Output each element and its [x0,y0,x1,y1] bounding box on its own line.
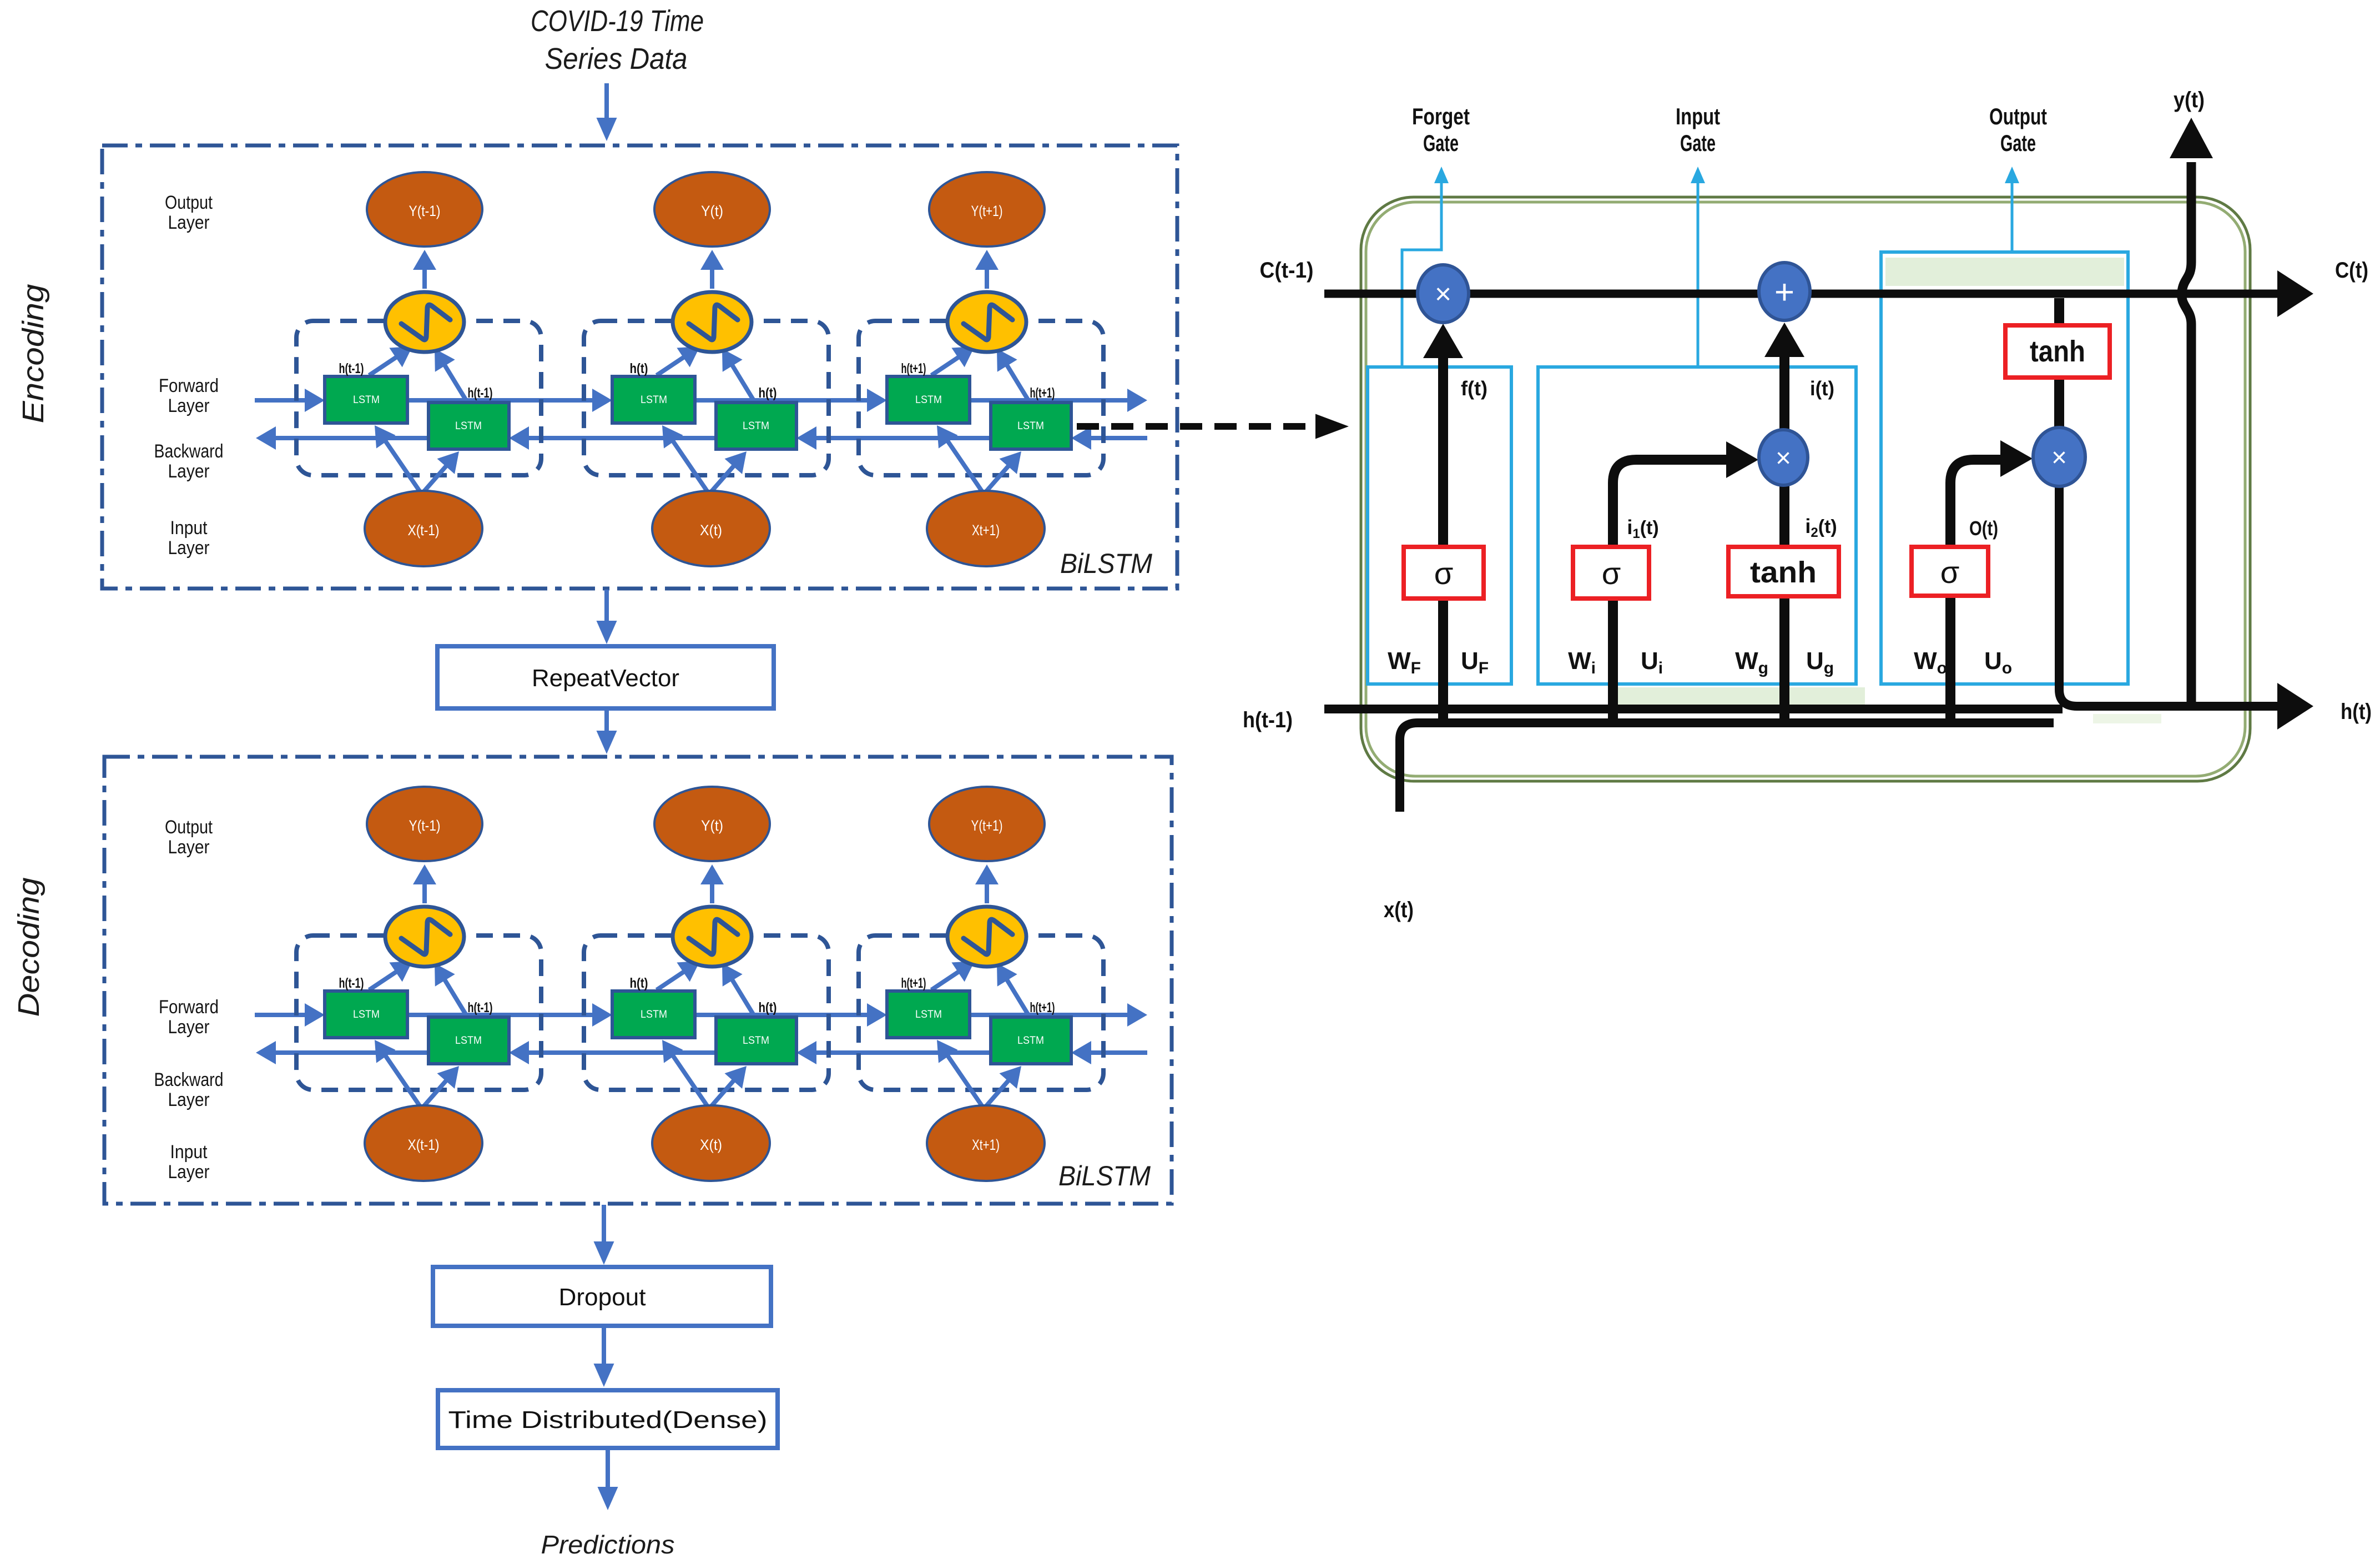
svg-text:tanh: tanh [2030,335,2085,368]
svg-text:Layer: Layer [168,395,210,416]
input oval X(t) [652,1105,770,1181]
activation circle (t+1) [947,907,1026,967]
svg-text:C(t-1): C(t-1) [1260,258,1314,283]
svg-text:h(t): h(t) [759,385,777,401]
sigma box input [1573,547,1649,599]
svg-text:LSTM: LSTM [641,394,667,406]
output oval Y(t+1) [929,172,1045,247]
svg-text:Y(t-1): Y(t-1) [409,817,441,834]
svg-text:Time Distributed(Dense): Time Distributed(Dense) [448,1406,768,1434]
svg-text:h(t-1): h(t-1) [339,361,364,376]
LSTM cell outer rounded box [1361,197,2250,781]
svg-text:Gate: Gate [1423,130,1459,156]
svg-text:X(t): X(t) [700,522,722,539]
backward LSTM box (t) [716,1017,796,1064]
svg-text:Xt+1): Xt+1) [972,1136,1000,1153]
svg-text:h(t+1): h(t+1) [901,361,926,376]
svg-text:×: × [1776,444,1791,473]
BiLSTM block border [104,757,1172,1204]
activation circle (t) [673,292,752,352]
dashed cell box (t+1) [859,321,1103,475]
svg-text:f(t): f(t) [1461,377,1487,400]
wire: backward LSTM to activation (t) [730,976,754,1016]
dashed cell box (t) [584,936,829,1090]
wire: decoder to Dropout [602,1205,606,1248]
input oval X(t-1) [365,491,482,566]
svg-text:Gate: Gate [2000,130,2036,156]
wire: X to backward LSTM (t+1) [986,462,1011,492]
RepeatVector box [437,646,774,708]
Time Distributed box [438,1390,778,1448]
svg-text:Layer: Layer [168,837,210,858]
svg-text:Y(t): Y(t) [701,203,723,219]
wire: backward line cell3 to cell2 [811,436,991,440]
wire: forward LSTM to activation (t+1) [931,969,962,990]
svg-text:LSTM: LSTM [1017,420,1044,432]
wire: input gate cyan arrow [1697,177,1700,367]
wire: input riser to add [1779,355,1789,727]
tanh box input [1728,547,1839,596]
svg-text:Dropout: Dropout [559,1284,646,1311]
input gate box [1538,367,1856,684]
svg-text:x(t): x(t) [1384,898,1414,922]
wire: forward LSTM to activation (t-1) [369,969,400,990]
wire: cell state C line [1324,290,2279,298]
wire: forward LSTM to activation (t) [657,969,688,990]
svg-text:Input: Input [170,1141,208,1163]
dashed cell box (t) [584,321,829,475]
svg-text:RepeatVector: RepeatVector [532,665,679,692]
multiply circle forget [1418,265,1469,323]
wire: output gate cyan arrow [2011,177,2014,252]
svg-text:+: + [1774,273,1794,311]
svg-text:LSTM: LSTM [353,1009,380,1020]
input oval Xt+1) [927,1105,1045,1181]
svg-text:h(t-1): h(t-1) [1243,708,1293,732]
wire: backward LSTM to activation (t-1) [442,976,467,1016]
activation circle (t+1) [947,292,1026,352]
svg-text:σ: σ [1940,555,1960,590]
wire: backward line exit left [271,436,428,440]
svg-text:X(t-1): X(t-1) [408,1136,440,1153]
wire: backward line cell3 to cell2 [811,1050,991,1055]
svg-text:h(t+1): h(t+1) [1030,385,1055,401]
svg-text:Layer: Layer [168,1017,210,1038]
wire: forget gate cyan arrow [1402,177,1441,367]
svg-text:Layer: Layer [168,1161,210,1183]
wire: tanh product to h out [2059,484,2279,706]
highlight strip output gate [1885,258,2124,286]
wire: X to forward LSTM (t+1) [945,1052,982,1107]
svg-text:h(t-1): h(t-1) [339,975,364,991]
wire: C to tanh downcomer [2054,298,2064,429]
svg-text:h(t): h(t) [630,975,648,991]
output oval Y(t+1) [929,787,1045,861]
backward LSTM box (t-1) [428,403,509,449]
wire: forward line cell2 to cell3 [695,398,872,403]
input oval X(t) [652,491,770,566]
forget gate box [1368,367,1511,684]
svg-text:Layer: Layer [168,537,210,559]
wire: backward line exit left [271,1050,428,1055]
svg-text:h(t): h(t) [759,1000,777,1015]
highlight strip input gate bottom [1612,687,1865,706]
svg-text:Forward: Forward [159,997,219,1018]
svg-text:h(t+1): h(t+1) [901,975,926,991]
svg-text:Forward: Forward [159,375,219,396]
output oval Y(t) [654,172,770,247]
wire: activation to output Y(t+1) [985,879,989,903]
input oval Xt+1) [927,491,1045,566]
svg-text:Gate: Gate [1680,130,1716,156]
svg-text:LSTM: LSTM [915,1009,942,1020]
svg-text:Y(t-1): Y(t-1) [409,203,441,219]
svg-text:×: × [1435,278,1451,310]
multiply circle input [1759,430,1808,485]
wire: backward LSTM to activation (t+1) [1005,976,1029,1016]
svg-text:h(t): h(t) [2341,700,2372,724]
output gate box [1881,252,2128,684]
svg-text:Input: Input [170,517,208,539]
activation circle (t) [673,907,752,967]
wire: encoder to RepeatVector [604,590,609,627]
wire: arrow title to encoder [604,83,609,124]
wire: activation to output Y(t) [710,265,714,289]
wire: x(t) entry [1400,723,2054,812]
svg-text:LSTM: LSTM [455,420,482,432]
wire: activation to output Y(t-1) [422,879,427,903]
wire: forward line cell1 to cell2 [407,398,597,403]
dashed cell box (t+1) [859,936,1103,1090]
wire: activation to output Y(t-1) [422,265,427,289]
svg-text:LSTM: LSTM [743,420,769,432]
svg-text:LSTM: LSTM [743,1035,769,1047]
BiLSTM block border [102,145,1177,589]
svg-text:Y(t): Y(t) [701,817,723,834]
svg-text:×: × [2051,443,2067,472]
svg-text:σ: σ [1602,556,1621,591]
output oval Y(t-1) [367,787,482,861]
svg-text:i1(t): i1(t) [1627,516,1658,541]
multiply circle output [2033,428,2085,486]
svg-text:COVID-19 Time: COVID-19 Time [531,4,704,38]
svg-text:Decoding: Decoding [12,878,46,1017]
svg-text:Y(t+1): Y(t+1) [971,203,1003,219]
svg-text:Y(t+1): Y(t+1) [971,817,1003,834]
wire: forward line cell1 to cell2 [407,1013,597,1017]
svg-text:Encoding: Encoding [17,284,50,424]
svg-text:X(t-1): X(t-1) [408,522,440,539]
dashed cell box (t-1) [296,321,541,475]
svg-text:Output: Output [1989,103,2047,129]
wire: forward line exit [970,1013,1132,1017]
wire: X to backward LSTM (t-1) [423,1077,449,1107]
output oval Y(t) [654,787,770,861]
wire: activation to output Y(t) [710,879,714,903]
svg-text:Layer: Layer [168,212,210,233]
forward LSTM box (t+1) [887,991,970,1038]
backward LSTM box (t+1) [991,1017,1071,1064]
wire: X to backward LSTM (t) [711,1077,737,1107]
svg-text:LSTM: LSTM [641,1009,667,1020]
svg-text:h(t+1): h(t+1) [1030,1000,1055,1015]
wire: forward LSTM to activation (t-1) [369,355,400,375]
output oval Y(t-1) [367,172,482,247]
forward LSTM box (t) [612,991,695,1038]
svg-text:Forget: Forget [1412,103,1470,129]
svg-text:h(t-1): h(t-1) [468,1000,493,1015]
wire: y(t) riser [2182,162,2191,706]
svg-text:h(t): h(t) [630,361,648,376]
backward LSTM box (t-1) [428,1017,509,1064]
wire: X to forward LSTM (t) [670,1052,708,1107]
svg-text:tanh: tanh [1750,556,1817,589]
svg-text:LSTM: LSTM [455,1035,482,1047]
wire: backward LSTM to activation (t-1) [442,361,467,401]
activation circle (t-1) [385,292,464,352]
svg-text:LSTM: LSTM [1017,1035,1044,1047]
svg-text:h(t-1): h(t-1) [468,385,493,401]
input oval X(t-1) [365,1105,482,1181]
wire: X to backward LSTM (t+1) [986,1077,1011,1107]
label Encoding [17,284,50,424]
svg-text:Series Data: Series Data [545,42,688,76]
svg-text:i(t): i(t) [1810,377,1834,400]
highlight smudge under h line [2093,714,2161,723]
wire: backward line entry right [1086,436,1147,440]
svg-text:X(t): X(t) [700,1136,722,1153]
svg-text:Output: Output [165,192,213,213]
wire: forward LSTM to activation (t) [657,355,688,375]
forward LSTM box (t) [612,376,695,423]
svg-text:Layer: Layer [168,461,210,482]
svg-text:i2(t): i2(t) [1805,515,1837,540]
wire: forward line cell2 to cell3 [695,1013,872,1017]
wire: Dropout to TimeDistributed [602,1327,606,1370]
svg-text:Input: Input [1676,103,1720,129]
forward LSTM box (t+1) [887,376,970,423]
wire: forward layer line entry [255,398,310,403]
forward LSTM box (t-1) [325,991,407,1038]
wire: sigma output elbow [1950,460,2003,727]
wire: backward line cell2 to cell1 [524,436,716,440]
label Decoding [12,878,46,1017]
wire: dashed arrow to LSTM cell detail [1077,423,1317,430]
wire: RepeatVector to decoder [604,710,609,737]
Dropout box [433,1267,771,1326]
sigma box output [1912,547,1988,596]
svg-text:C(t): C(t) [2335,258,2368,283]
wire: TimeDistributed to Predictions [606,1449,610,1493]
wire: forward line exit [970,398,1132,403]
wire: backward line entry right [1086,1050,1147,1055]
wire: X to backward LSTM (t-1) [423,462,449,492]
svg-text:Output: Output [165,817,213,838]
wire: sigma input elbow [1613,460,1728,727]
backward LSTM box (t) [716,403,796,449]
svg-text:O(t): O(t) [1969,517,1998,540]
svg-text:LSTM: LSTM [353,394,380,406]
activation circle (t-1) [385,907,464,967]
svg-text:Backward: Backward [154,441,224,462]
svg-text:LSTM: LSTM [915,394,942,406]
svg-text:BiLSTM: BiLSTM [1060,548,1152,579]
forward LSTM box (t-1) [325,376,407,423]
svg-text:y(t): y(t) [2174,88,2205,112]
add circle [1759,263,1810,320]
wire: backward LSTM to activation (t) [730,361,754,401]
wire: backward LSTM to activation (t+1) [1005,361,1029,401]
wire: X to forward LSTM (t-1) [383,1052,420,1107]
backward LSTM box (t+1) [991,403,1071,449]
wire: X to backward LSTM (t) [711,462,737,492]
svg-text:Layer: Layer [168,1089,210,1110]
wire: X to forward LSTM (t+1) [945,437,982,492]
wire: forget riser [1438,355,1448,727]
wire: activation to output Y(t+1) [985,265,989,289]
svg-text:Backward: Backward [154,1069,224,1090]
tanh box top [2005,325,2110,378]
svg-text:Predictions: Predictions [541,1530,675,1559]
wire: forward LSTM to activation (t+1) [931,355,962,375]
svg-text:Xt+1): Xt+1) [972,522,1000,539]
wire: forward layer line entry [255,1013,310,1017]
wire: X to forward LSTM (t) [670,437,708,492]
wire: backward line cell2 to cell1 [524,1050,716,1055]
dashed cell box (t-1) [296,936,541,1090]
svg-text:σ: σ [1434,556,1454,591]
sigma box forget [1404,547,1484,599]
svg-text:BiLSTM: BiLSTM [1058,1160,1151,1191]
wire: h(t-1) entry line [1324,705,2063,713]
wire: X to forward LSTM (t-1) [383,437,420,492]
